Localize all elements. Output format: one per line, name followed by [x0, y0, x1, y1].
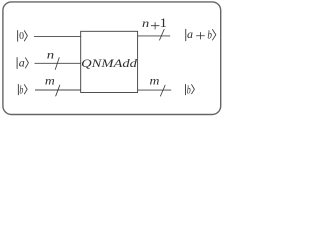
wire row1 right — [138, 35, 171, 37]
svg-text:n: n — [47, 48, 54, 62]
gate box QNMAdd — [81, 31, 138, 92]
wire row2 left — [35, 62, 81, 64]
svg-text:b: b — [187, 83, 191, 97]
svg-text:m: m — [150, 74, 160, 88]
slash right bottom — [160, 85, 165, 97]
wire row3 right — [138, 89, 172, 91]
svg-text:a: a — [187, 27, 193, 41]
svg-text:0: 0 — [19, 30, 24, 42]
ket |a> input — [17, 55, 28, 69]
svg-text:1: 1 — [160, 16, 167, 30]
wire row3 left — [35, 89, 81, 91]
svg-text:QNMAdd: QNMAdd — [81, 56, 138, 70]
slash row2 — [55, 57, 59, 69]
slash right top — [159, 29, 164, 40]
svg-text:m: m — [45, 74, 55, 88]
slash row3 — [56, 85, 60, 97]
svg-text:n: n — [142, 16, 149, 30]
svg-text:b: b — [207, 28, 212, 42]
ket |0> input — [18, 30, 28, 42]
label n+1 — [142, 16, 167, 30]
ket |b> output — [186, 83, 195, 97]
svg-text:a: a — [19, 55, 25, 69]
svg-text:b: b — [19, 83, 23, 97]
wire row1 left — [34, 35, 81, 37]
ket |a+b> output — [186, 27, 216, 42]
ket |b> input — [18, 83, 27, 97]
